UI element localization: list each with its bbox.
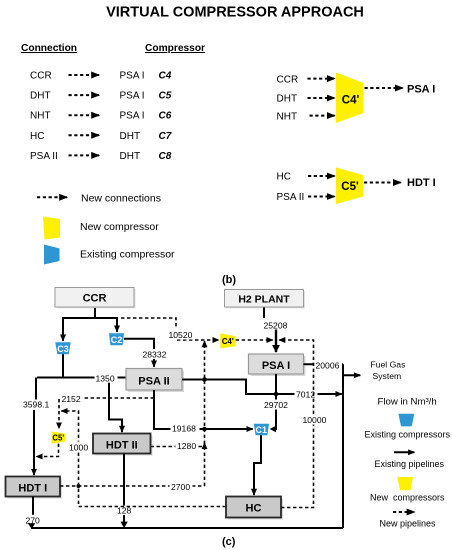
legend existing pipelines arrow [394, 451, 414, 453]
wire down into C3 [62, 317, 64, 341]
svg-text:PSA I: PSA I [120, 91, 145, 102]
svg-text:CCR: CCR [277, 74, 299, 85]
legend: new connections arrow [37, 193, 161, 205]
legend: new compressor (yellow) [43, 217, 159, 240]
compressor C5' (yellow trapezoid) [336, 168, 363, 205]
wire split horizontal [62, 317, 118, 319]
svg-text:New connections: New connections [81, 193, 161, 205]
svg-text:1000: 1000 [69, 442, 88, 452]
wire down into C2 [116, 317, 118, 332]
box HC [226, 497, 283, 520]
svg-text:System: System [373, 371, 402, 381]
table row HC -> DHT C7 [30, 131, 172, 142]
svg-text:(b): (b) [222, 274, 236, 286]
compressor C5' (yellow, small) [52, 432, 66, 444]
compressor C3 (blue) [55, 342, 70, 354]
svg-text:25208: 25208 [264, 320, 288, 330]
label 2152 [60, 393, 84, 404]
table row CCR -> PSA I C4 [30, 71, 172, 82]
wire C5' -> HDT I [364, 182, 401, 184]
svg-text:PSA II: PSA II [138, 375, 169, 387]
svg-text:H2 PLANT: H2 PLANT [238, 294, 290, 306]
svg-text:New compressor: New compressor [80, 221, 159, 233]
table row DHT -> PSA I C5 [30, 91, 172, 102]
svg-text:PSA I: PSA I [407, 84, 435, 96]
table row NHT -> PSA I C6 [30, 111, 172, 122]
svg-text:Existing pipelines: Existing pipelines [375, 459, 445, 469]
wire to HDT I (3598.1) upper [35, 378, 37, 400]
svg-text:PSA I: PSA I [120, 71, 145, 82]
label 7012 [295, 389, 318, 400]
compressor C1 (blue) [254, 424, 269, 436]
svg-text:(c): (c) [222, 536, 236, 548]
wire C4' output dashed -> 25208 line [236, 339, 273, 341]
svg-text:C5': C5' [341, 181, 359, 193]
arrow up 1280 [204, 443, 206, 448]
svg-text:Flow in Nm³/h: Flow in Nm³/h [378, 397, 437, 408]
svg-text:19168: 19168 [172, 423, 196, 433]
label 19168 [171, 423, 200, 433]
table row PSA II -> DHT C8 [30, 151, 172, 162]
wire 1000 dashed HC -> C5' input [61, 411, 226, 507]
compressor C4' (yellow trapezoid) [336, 73, 364, 124]
svg-text:C7: C7 [159, 131, 172, 142]
wire 10000 dashed HC -> PSA I feed [279, 340, 314, 508]
label 10520 [167, 329, 194, 340]
wire HC -> C5' [308, 175, 335, 177]
svg-text:C1: C1 [256, 425, 268, 435]
wire fuel gas arrow [343, 374, 360, 376]
svg-text:1280: 1280 [177, 441, 196, 451]
svg-text:10000: 10000 [303, 415, 327, 425]
wire collector dashed vertical up to 10520 line [204, 341, 206, 486]
svg-text:Existing compressor: Existing compressor [80, 249, 175, 261]
wire 10520 dashed CCR -> C4' [121, 318, 219, 340]
svg-text:Connection: Connection [21, 43, 77, 54]
svg-text:PSA II: PSA II [277, 192, 305, 203]
label 1000 [68, 442, 90, 453]
wire CCR -> C4' [308, 78, 335, 80]
svg-text:C4': C4' [222, 337, 234, 346]
svg-text:10520: 10520 [169, 330, 193, 340]
wire PSA I right (20006) [304, 363, 344, 365]
wire C5' output dashed -> HDT I feed [36, 444, 58, 457]
svg-text:Fuel Gas: Fuel Gas [371, 360, 406, 370]
svg-text:DHT: DHT [277, 94, 298, 105]
svg-text:HC: HC [277, 172, 291, 183]
svg-text:HDT I: HDT I [18, 482, 47, 494]
legend new pipelines arrow [393, 511, 414, 513]
label 10000 [301, 415, 328, 426]
label 20006 [314, 360, 342, 370]
svg-text:DHT: DHT [120, 151, 141, 162]
legend existing compressor (blue) [398, 414, 414, 427]
box PSA II [126, 369, 184, 393]
svg-text:DHT: DHT [120, 131, 141, 142]
wire 25208 -> PSA I [275, 330, 277, 353]
wire 2152 dashed PSA II -> C5' [59, 398, 154, 429]
svg-text:NHT: NHT [30, 111, 51, 122]
wire 2700 dashed HDT I -> collector [60, 485, 205, 487]
label 270 [24, 515, 42, 526]
wire DHT -> C4' [308, 97, 335, 99]
svg-text:C4: C4 [159, 71, 172, 82]
svg-text:Compressor: Compressor [145, 43, 205, 54]
compressor C4' (yellow, small) [220, 333, 235, 348]
svg-text:2152: 2152 [62, 394, 81, 404]
wire H2 PLANT down upper [263, 308, 265, 319]
junction dot collector x PSAII-right line [202, 377, 207, 382]
svg-text:C6: C6 [159, 111, 172, 122]
wire PSA II bottom down + 19168 to C1 [154, 390, 253, 429]
svg-text:Existing compressors: Existing compressors [365, 429, 451, 439]
wire to HDT II [109, 378, 122, 433]
wire PSA II -> C5' [308, 196, 335, 198]
wire 1280 dashed HDT II -> collector [151, 446, 205, 448]
svg-text:C8: C8 [159, 151, 172, 162]
svg-text:New compressors: New compressors [370, 492, 445, 502]
wire C3 down [62, 354, 64, 377]
svg-text:C4': C4' [342, 95, 360, 107]
arrowhead 128 onto bus [121, 522, 128, 529]
junction dot collector x 19168 line [202, 427, 207, 432]
box CCR [55, 288, 136, 309]
wire HDT II bottom (128) [123, 454, 125, 523]
box HDT I [6, 477, 63, 499]
label 29702 [263, 400, 291, 411]
svg-text:NHT: NHT [277, 111, 298, 122]
svg-text:2700: 2700 [171, 482, 190, 492]
compressor C2 (blue) [109, 333, 124, 345]
wire 1350 horizontal to PSA II [37, 377, 126, 379]
label 2700 [170, 481, 193, 492]
wire C4' -> PSA I [365, 87, 403, 89]
svg-text:20006: 20006 [316, 360, 340, 370]
svg-text:C2: C2 [111, 335, 123, 345]
wire fuel-gas vertical [342, 364, 344, 528]
wire C1 -> HC [254, 435, 261, 495]
legend new compressor (yellow) [397, 477, 413, 490]
svg-text:C5': C5' [52, 434, 64, 443]
svg-text:New pipelines: New pipelines [380, 518, 437, 528]
header Compressor [145, 43, 205, 54]
svg-text:C5: C5 [159, 91, 172, 102]
wire C2 -> PSA II (28332) [124, 339, 154, 367]
svg-text:HC: HC [30, 131, 44, 142]
svg-text:3598.1: 3598.1 [23, 400, 50, 410]
svg-text:CCR: CCR [30, 71, 52, 82]
svg-text:7012: 7012 [296, 390, 315, 400]
wire PSA II right -> 7012 -> fuel line [182, 380, 342, 395]
label 1280 [176, 441, 198, 452]
box HDT II [93, 434, 153, 456]
svg-text:VIRTUAL COMPRESSOR APPROACH: VIRTUAL COMPRESSOR APPROACH [106, 5, 364, 21]
svg-text:PSA II: PSA II [30, 151, 58, 162]
wire PSA I bottom down (29702) to C1 [274, 374, 276, 429]
junction dot 7012/29702 [274, 392, 279, 397]
svg-text:1350: 1350 [96, 374, 115, 384]
arrowhead 29702 into C1 [270, 426, 276, 432]
wire CCR down [94, 308, 96, 318]
svg-text:DHT: DHT [30, 91, 51, 102]
junction dot 1000 x 2700 [77, 484, 81, 488]
svg-text:C3: C3 [57, 344, 69, 354]
svg-text:PSA I: PSA I [120, 111, 145, 122]
wire NHT -> C4' [310, 115, 335, 117]
svg-text:HC: HC [246, 503, 262, 515]
arrowhead 270 onto bus [28, 523, 35, 529]
box PSA I [249, 354, 306, 376]
svg-text:29702: 29702 [264, 400, 288, 410]
svg-text:PSA I: PSA I [262, 360, 290, 372]
svg-text:28332: 28332 [143, 349, 167, 359]
wire HDT I bottom (270) [32, 497, 33, 524]
wire to HDT I lower + arrow [33, 410, 35, 475]
label 128 [116, 506, 133, 516]
svg-text:HDT I: HDT I [407, 177, 436, 189]
label 28332 [141, 349, 167, 359]
legend: existing compressor (blue) [44, 245, 175, 265]
label 1350 [95, 373, 118, 383]
wire bottom bus [31, 527, 343, 529]
svg-text:CCR: CCR [83, 293, 107, 305]
box H2 PLANT [225, 290, 306, 309]
svg-text:HDT II: HDT II [106, 439, 138, 451]
header Connection [21, 43, 77, 54]
